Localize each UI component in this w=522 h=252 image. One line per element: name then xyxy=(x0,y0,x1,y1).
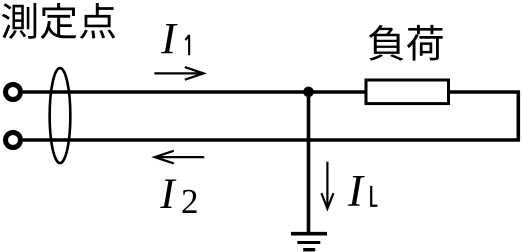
svg-text:I: I xyxy=(347,166,365,216)
svg-text:I: I xyxy=(160,14,178,63)
svg-text:I: I xyxy=(159,171,176,218)
svg-text:2: 2 xyxy=(181,182,199,221)
